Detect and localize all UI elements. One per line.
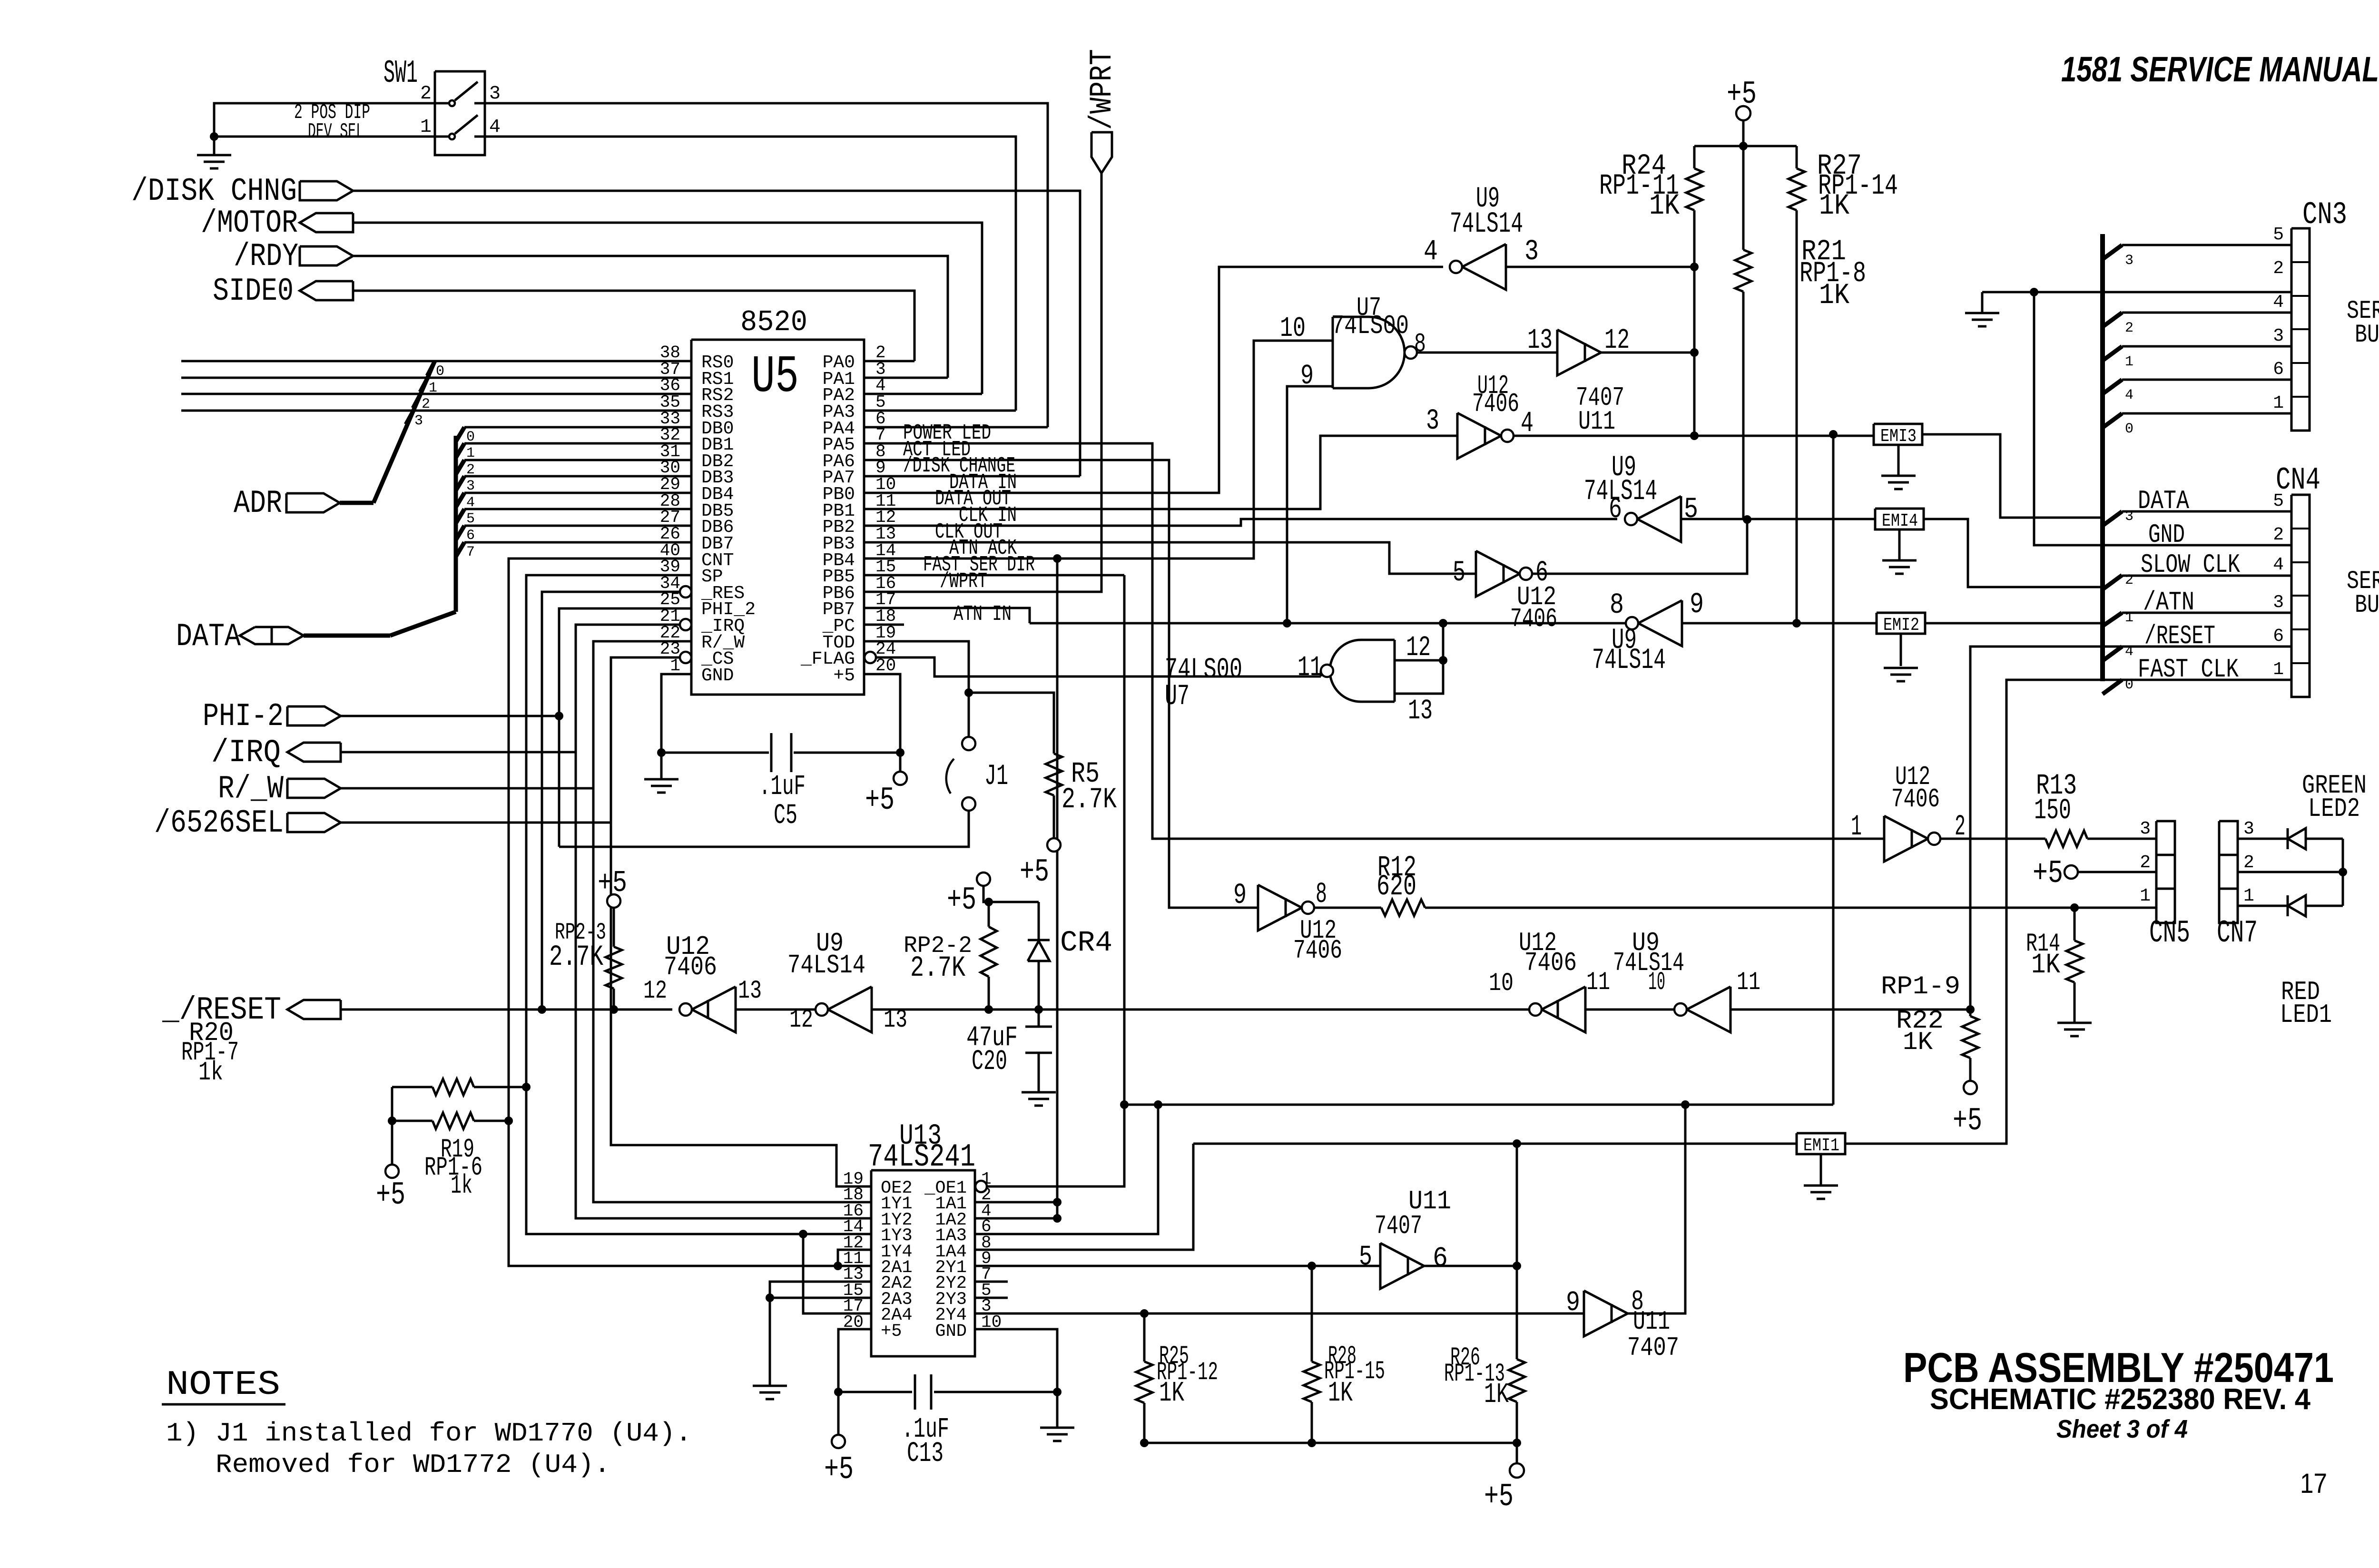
ground at SW1 [197,154,231,157]
wire U13 1A1 row [975,1201,1057,1204]
wire U13 1A2 row [975,1217,1057,1220]
svg-text:+5: +5 [1727,76,1757,113]
svg-text:GND: GND [701,666,734,686]
wire U5 _RES riser [542,592,680,1009]
svg-text:/DISK CHNG: /DISK CHNG [131,173,297,210]
svg-text:74LS14: 74LS14 [1584,475,1657,508]
resistor R20 RP1-7 1k [392,1086,433,1088]
svg-text:1: 1 [2243,886,2254,906]
wire ADR bit1 RS1 [181,377,691,379]
wire reset row segment 3 [872,1009,1529,1011]
ground below U13 pin10 [1040,1427,1074,1429]
svg-text:LED1: LED1 [2280,1000,2332,1030]
svg-text:2: 2 [2273,525,2284,545]
ground near CN3 [1981,292,1984,313]
wire U5 PA7 stub [864,475,1080,478]
wire SW1 pin4 to U5 PA3 [485,137,1016,411]
svg-text:RP1-9: RP1-9 [1881,972,1960,1001]
EMI filter EMI2 [1877,613,1925,634]
capacitor C20 47uF [1038,1009,1040,1027]
wire U13 1Y3 to 2A4 loop [803,1234,871,1313]
wire U5 PA3 stub [864,410,1016,412]
CN4 FAST CLK tap [2103,680,2122,694]
wire EMI3 net riser [1832,434,1835,1105]
svg-text:FAST CLK: FAST CLK [2138,654,2239,685]
svg-text:3: 3 [489,83,501,105]
svg-text:DATA: DATA [2138,486,2189,516]
svg-text:ATN IN: ATN IN [954,602,1012,627]
svg-text:1: 1 [670,656,680,676]
svg-text:GND: GND [2148,519,2185,550]
wire U5 PA2 stub [864,393,982,395]
wire EMI3 to serial bus [1922,434,2103,518]
bus DATA tap 4 to DB4 [456,493,464,507]
resistor R13 150 [2045,831,2087,847]
capacitor C13 .1uF [838,1391,912,1393]
bus DATA tap 0 to DB0 [456,427,464,441]
svg-text:1K: 1K [1819,279,1849,312]
diode CR4 [1038,902,1040,940]
svg-text:/ATN: /ATN [2143,587,2194,617]
CN4 DATA wire and tap [2122,510,2291,513]
svg-text:C20: C20 [972,1046,1007,1078]
wire U11 pin12 to DATA net [1601,352,1694,354]
wire DB6 row [464,525,691,527]
CN4 SLOW CLK tap [2103,575,2122,589]
svg-text:1: 1 [1851,811,1862,843]
svg-text:1: 1 [2273,393,2284,413]
wire DATA IN net: U9 pin4 to U5 PB0 [864,267,1443,493]
wire NAND2 inputs 12,13 to ATN IN riser [1395,659,1443,662]
wire EMI1 left row to U11 outputs and U13 1A4 [1193,1143,1797,1145]
wire U13 pin20 +5 [838,1329,871,1435]
resistor R19 RP1-6 1k [391,1087,393,1121]
wire NAND2 output stub to FLAG row [1320,671,1322,676]
svg-text:BUS: BUS [2355,591,2379,620]
svg-text:6: 6 [1433,1243,1448,1274]
svg-text:8520: 8520 [740,305,807,339]
switch SW1 body [435,71,485,155]
svg-text:/MOTOR: /MOTOR [201,205,298,242]
CN4 GND wire from ground riser [2034,292,2291,545]
wire EMI1 right to FAST CLK riser [1845,680,2291,1144]
resistor R27 RP1-14 1K (ATN pullup) [1796,146,1798,168]
svg-text:.1uF: .1uF [759,771,806,803]
svg-text:7406: 7406 [1891,784,1940,814]
svg-text:EMI4: EMI4 [1882,511,1918,531]
inverter U12 pin10<-11 (reset right) [1542,987,1585,1032]
svg-text:2: 2 [2243,853,2254,873]
svg-text:EMI2: EMI2 [1883,615,1919,636]
wire /MOTOR to U5 PA2 [353,223,982,394]
EMI filter EMI3 [1874,424,1922,445]
wire U5 PA1 stub [864,377,948,379]
wire EMI2 to serial bus [1925,622,2103,625]
ground below EMI4 [1898,529,1901,560]
svg-text:11: 11 [1737,968,1760,997]
svg-text:2: 2 [2140,853,2151,873]
power +5 below R5 [1047,838,1061,852]
svg-text:4: 4 [1424,235,1438,268]
svg-text:8: 8 [1316,878,1327,911]
svg-text:/RESET: /RESET [2144,621,2215,651]
svg-text:13: 13 [1408,695,1433,727]
wire +5 rail R24/R27 [1694,145,1797,147]
svg-text:+5: +5 [947,882,976,919]
svg-text:U5: U5 [751,348,799,407]
wire U5 PA0 stub [864,360,914,363]
EMI filter EMI4 [1875,509,1924,529]
wire U12 pin4 output to EMI3 [1514,435,1874,437]
power +5 top rail [1736,106,1750,120]
svg-text:SIDE0: SIDE0 [213,273,294,310]
ground at U5 pin1 [644,778,678,781]
capacitor C5 .1uF [661,752,769,754]
svg-text:SLOW CLK: SLOW CLK [2141,549,2240,580]
bus DATA tap 7 to DB7 [456,542,464,557]
buffer U11 pin5->6 [1380,1243,1424,1289]
svg-text:3: 3 [1524,235,1539,268]
svg-text:LED2: LED2 [2308,794,2360,824]
wire SW1 pin3 to U5 PA4 [485,103,1048,427]
wire U13 pin10 GND [975,1329,1057,1428]
power +5 below R19 [391,1121,393,1165]
svg-text:1k: 1k [451,1170,472,1201]
svg-text:+5: +5 [376,1177,405,1214]
wire U13 2Y4 row to U11 pin9 [975,1313,1584,1315]
svg-text:3: 3 [2243,819,2254,839]
power +5 below U13 [832,1435,845,1448]
bus DATA tap 3 to DB3 [456,476,464,490]
ground below R14 [2057,1022,2092,1024]
wire /DISK CHNG to U5 PA7 [353,191,1080,476]
svg-text:17: 17 [2300,1468,2327,1499]
bus serial trunk vertical [2100,234,2105,681]
resistor R5 2.7K [969,693,1054,754]
wire U5 PB7 jog to ATN IN row [864,608,1030,623]
wire FAST SER DIR branch to U13 OE1 [987,575,1124,1186]
wire U11 pin8 output riser [1628,1105,1685,1313]
wire U5 PA4 stub [864,426,1048,429]
wire SW1 left common [214,103,435,137]
svg-text:1K: 1K [1159,1377,1184,1409]
wire U13 2A2/2A3 to ground [770,1282,871,1386]
svg-text:2: 2 [2125,572,2133,588]
wire /RESET row segment 1 [341,1009,672,1011]
wire U5 PHI_2 riser [559,608,691,847]
inverter U12 pin3->4 (DATA OUT to EMI3) [1457,413,1501,459]
wire DB0 row [464,426,691,429]
wire ACT LED net R12 row to CN5 pin1 [1312,907,1381,909]
wire U12 pin2 to R13 [1940,838,2045,840]
inverter U9 pin4<-3 (DATA to DATA IN) [1462,244,1506,290]
svg-text:20: 20 [875,656,896,676]
svg-text:4: 4 [2125,387,2133,403]
svg-text:1: 1 [2125,354,2133,370]
wire DB3 row [464,475,691,478]
wire U7 pin8 to U11 pin13 [1417,352,1557,354]
svg-text:4: 4 [2125,644,2133,660]
svg-text:3: 3 [1426,405,1439,438]
bus DATA tap 2 to DB2 [456,460,464,474]
wire PHI-2 row [341,715,559,717]
svg-text:1k: 1k [198,1057,223,1088]
wire CLK IN net: U9 pin6 to U5 PB2 [864,519,1617,526]
svg-text:+5: +5 [2033,855,2063,892]
svg-text:+5: +5 [833,666,855,686]
svg-text:7406: 7406 [664,952,717,982]
svg-text:2.7K: 2.7K [549,941,603,974]
svg-text:+5: +5 [824,1451,854,1488]
resistor R24 RP1-11 1K (DATA pullup) [1693,146,1696,168]
svg-text:74LS14: 74LS14 [1592,644,1666,677]
svg-text:11: 11 [1586,968,1610,997]
wire /6526SEL row [341,822,611,824]
resistor R22 RP1-9 1K [1969,1009,1972,1016]
wire U9 pin3 input from DATA net [1506,266,1694,268]
wire ADR bit3 RS3 [181,410,691,412]
wire J1 bottom to PHI-2 net [559,811,969,847]
wire U13 2Y2 stub [975,1281,1008,1283]
svg-text:7: 7 [466,544,475,560]
wire LED rail [2342,839,2344,906]
resistor R12 620 [1381,900,1425,916]
svg-text:C5: C5 [774,800,797,832]
ground below EMI2 [1900,634,1902,666]
IC U5 8520 body [691,340,864,695]
svg-text:7406: 7406 [1472,389,1519,419]
svg-text:J1: J1 [984,760,1008,793]
svg-text:SCHEMATIC #252380 REV. 4: SCHEMATIC #252380 REV. 4 [1930,1383,2310,1416]
bus ADR tap 0 [427,361,435,376]
wire POWER LED net: U5 PA5 to U12 pin1 [864,443,1884,839]
wire FAST SER DIR cross row [1124,1104,1833,1106]
svg-text:ADR: ADR [234,485,282,522]
wire U5 +5 pin20 [864,674,900,772]
svg-text:4: 4 [2273,555,2284,575]
svg-text:2.7K: 2.7K [1062,784,1117,816]
svg-text:74LS14: 74LS14 [787,950,865,980]
svg-text:Removed for WD1772 (U4).: Removed for WD1772 (U4). [216,1450,610,1480]
jumper J1 [962,737,975,750]
wire FAST SER DIR net: U5 PB5 to U13 OE1 riser [864,574,1124,577]
wire DB7 row [464,541,691,544]
svg-text:U11: U11 [1578,406,1615,437]
svg-text:9: 9 [1566,1287,1580,1319]
svg-text:7406: 7406 [1524,948,1577,978]
wire ATN IN row to U9 pin8 [1030,622,1628,625]
ground below EMI3 [1897,445,1900,476]
svg-text:+5: +5 [1484,1479,1514,1515]
connector CN5 body [2156,821,2175,923]
wire U5 SP riser to U13 1Y3 [526,575,871,1234]
svg-text:1K: 1K [1328,1377,1353,1409]
svg-text:PHI-2: PHI-2 [203,698,284,735]
svg-text:1: 1 [420,117,432,138]
inverter U9 pin13->12 (reset) [828,987,872,1032]
wire U5 GND pin1 [661,674,691,779]
svg-text:12: 12 [789,1006,813,1035]
U13 _OE1 bubble [975,1181,987,1192]
svg-text:NOTES: NOTES [166,1365,280,1404]
wire EMI4 to serial bus [1924,519,2103,587]
bus DATA tap 1 to DB1 [456,443,464,458]
wire reset row segment 5 [1730,1009,1970,1011]
svg-text:0: 0 [2125,677,2133,693]
svg-text:10: 10 [1280,313,1306,344]
svg-text:+5: +5 [598,866,627,900]
wire ADR bit0 RS0 [181,360,691,363]
bus ADR tap 1 [420,378,428,392]
svg-text:CN7: CN7 [2217,915,2258,951]
NAND U7 pins 10,9 -> 8 [1332,317,1334,388]
bus DATA trunk [304,634,390,638]
wire U5 R/_W riser to U13 1Y1 [593,641,871,1202]
svg-text:U7: U7 [1165,680,1189,713]
svg-text:2: 2 [2273,258,2284,279]
switch SW1 pole 2-3 [435,102,448,105]
svg-text:Sheet 3 of 4: Sheet 3 of 4 [2056,1415,2188,1443]
svg-text:5: 5 [2273,491,2284,511]
wire U13 1Y4/2A1 jog [838,1250,871,1266]
CN3 pin2 GND wire [1982,291,2291,294]
svg-text:3: 3 [2125,253,2133,269]
svg-text:10: 10 [1489,969,1514,998]
wire U13 1A4 feed from fast clk row [975,1144,1193,1250]
svg-text:R/_W: R/_W [218,771,284,807]
svg-text:4: 4 [2273,292,2284,313]
svg-text:7407: 7407 [1375,1211,1422,1241]
svg-text:/6526SEL: /6526SEL [154,805,284,842]
svg-text:7406: 7406 [1293,935,1342,966]
svg-text:1) J1 installed for WD1770 (U4: 1) J1 installed for WD1770 (U4). [166,1418,692,1449]
wire DATA OUT net: U5 PB1 to U12 pin3 [864,436,1457,509]
svg-text:1: 1 [2125,610,2133,626]
svg-text:6: 6 [2273,626,2284,647]
svg-text:/RDY: /RDY [234,238,298,275]
wire reset row segment 4 [1585,1009,1674,1011]
svg-text:2: 2 [2125,320,2133,336]
svg-text:74LS00: 74LS00 [1331,311,1409,341]
svg-text:11: 11 [1298,652,1322,684]
buffer U11 pin9->8 [1584,1291,1628,1336]
svg-text:/WPRT: /WPRT [940,569,987,594]
wire ATN IN branch to U7 pin9 [1287,386,1333,623]
inverter U12 pin9->8 (ACT LED) [1258,885,1302,931]
wire DB4 row [464,492,691,494]
bus DATA tap 6 to DB6 [456,526,464,540]
svg-text:/IRQ: /IRQ [211,735,281,771]
inverter U12 pin5->6 (CLK OUT to SLOW CLK) [1476,551,1520,597]
inverter U12 pin13->12 (reset) [692,987,736,1032]
wire branch to U13 1A3 [975,1105,1158,1234]
svg-text:6: 6 [2273,359,2284,380]
svg-text:1K: 1K [1484,1379,1509,1411]
wire CLK OUT net: U5 PB3 to U12 pin5 jog [864,542,1476,574]
svg-text:/WPRT: /WPRT [1084,49,1120,130]
svg-text:74LS14: 74LS14 [1450,208,1523,241]
EMI filter EMI1 [1797,1133,1845,1154]
resistor R14 1K [2074,908,2076,941]
connector CN7 body [2219,821,2238,923]
CN4 /RESET tap [2103,647,2122,661]
svg-text:+5: +5 [865,782,895,819]
wire ATN ACK branch to U13 1A1/1A2 [1056,559,1059,1218]
wire CN7 pin2 to rail [2238,871,2343,873]
resistor R21 RP1-8 1K (CLK pullup) [1742,146,1745,250]
svg-text:+5: +5 [1953,1103,1982,1139]
svg-text:150: 150 [2034,794,2071,827]
wire U5 TOD to J1 [864,641,969,738]
resistor RP2-3 2.7K [607,894,620,908]
inverter U9 pin10<-11 (reset right) [1687,987,1730,1032]
power +5 at U5 pin20 [894,772,907,785]
svg-text:EMI1: EMI1 [1803,1136,1839,1156]
svg-text:9: 9 [1300,360,1314,392]
resistor R26 RP1-13 1K [1516,1266,1518,1359]
inverter U12 pin1->2 (POWER LED) [1884,816,1928,862]
svg-text:13: 13 [1527,324,1553,356]
wire /RESET riser to CN4 [1970,647,2291,1009]
svg-text:DEV SEL: DEV SEL [308,120,364,144]
wire U5 _PC stub [864,624,904,626]
svg-text:2.7K: 2.7K [910,952,965,985]
svg-text:7406: 7406 [1510,604,1557,634]
wire U9 pin9 input from ATN net / EMI2 [1682,622,1877,625]
power +5 above RP2-2/CR4 [977,872,990,886]
wire U13 2Y1 row to U11 pin5 [975,1265,1380,1267]
bus DATA tap 5 to DB5 [456,509,464,523]
svg-text:BUS: BUS [2355,321,2379,350]
svg-text:9: 9 [1690,588,1704,621]
svg-text:CR4: CR4 [1060,927,1112,960]
wire U9 pin5 input from CLK net / EMI4 [1681,518,1875,520]
svg-text:12: 12 [1406,632,1431,664]
svg-text:EMI3: EMI3 [1880,426,1917,447]
svg-text:13: 13 [738,977,762,1006]
wire U5 _CS riser to U13 OE2 [611,657,871,1186]
svg-text:3: 3 [2125,509,2133,525]
wire +5 rail bottom [1144,1442,1517,1444]
svg-text:2: 2 [420,83,432,105]
wire R/_W row [341,787,593,790]
svg-text:8: 8 [1610,589,1624,622]
bus ADR tap 3 [406,411,413,424]
svg-text:0: 0 [2125,421,2133,437]
svg-text:3: 3 [2273,592,2284,613]
svg-text:1K: 1K [1903,1028,1933,1057]
svg-text:74LS241: 74LS241 [868,1139,975,1176]
inverter U9 pin6<-5 (CLK to CLK IN) [1637,496,1681,542]
resistor R25 RP1-12 1K [1143,1313,1146,1362]
IC U13 74LS241 body [871,1170,975,1356]
bus ADR tap 2 [413,394,421,408]
inverter U9 pin8<-9 (ATN to ATN IN) [1638,600,1682,646]
wire U13 2Y3 stub [975,1297,1008,1299]
wire /WPRT to U5 PB6 [864,173,1101,592]
svg-text:4: 4 [489,117,501,138]
ground below C20 [1022,1091,1056,1094]
ground below U13 2A2 [753,1385,787,1387]
wire DB5 row [464,508,691,510]
wire CN4 SLOW CLK pin4 row [2122,575,2291,577]
svg-text:3: 3 [2273,326,2284,346]
resistor R28 RP1-15 1K [1311,1266,1313,1362]
svg-text:7407: 7407 [1627,1333,1679,1363]
wire DB2 row [464,459,691,461]
wire /IRQ row [341,751,576,754]
ground below EMI1 [1820,1154,1822,1186]
